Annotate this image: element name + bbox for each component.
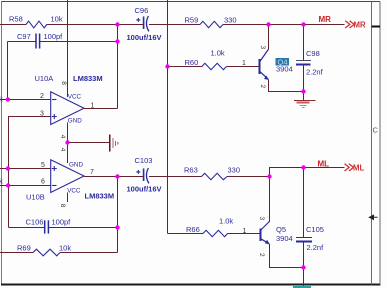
svg-text:GND: GND xyxy=(68,117,82,124)
svg-text:100uf/16V: 100uf/16V xyxy=(127,33,162,42)
svg-text:3904: 3904 xyxy=(276,65,293,74)
svg-text:1.0k: 1.0k xyxy=(219,216,233,225)
svg-text:330: 330 xyxy=(228,166,241,175)
wire C106 row xyxy=(9,227,118,229)
svg-text:100uf/16V: 100uf/16V xyxy=(127,185,162,194)
op-amp U10A xyxy=(51,92,84,125)
wire ground branch xyxy=(68,142,110,144)
ground (selected, bottom edge) xyxy=(293,286,311,288)
pin number 3 (Q4 collector, rotated) xyxy=(259,46,266,50)
svg-text:k: k xyxy=(0,177,3,186)
wire Q4 collector vertical xyxy=(268,25,270,50)
svg-text:330: 330 xyxy=(224,15,237,24)
capacitor C106 xyxy=(45,220,49,233)
wire long vertical x=167.5 xyxy=(167,0,169,234)
svg-text:2.2nf: 2.2nf xyxy=(306,68,324,77)
svg-text:R69: R69 xyxy=(17,243,31,252)
svg-text:4: 4 xyxy=(59,135,66,139)
svg-text:ML: ML xyxy=(353,164,364,173)
svg-text:10k: 10k xyxy=(59,243,71,252)
wire R60 row xyxy=(168,66,259,68)
svg-text:R63: R63 xyxy=(184,166,198,175)
svg-text:7: 7 xyxy=(90,169,94,176)
wire pin5 row xyxy=(0,168,51,170)
svg-text:3: 3 xyxy=(258,217,265,221)
svg-text:4: 4 xyxy=(59,148,66,152)
transistor Q5 xyxy=(261,222,270,245)
svg-text:MR: MR xyxy=(354,21,366,30)
svg-text:1.0k: 1.0k xyxy=(211,48,225,57)
resistor R60 xyxy=(202,63,227,69)
wire U10B pin8 stub xyxy=(67,193,69,203)
svg-text:3: 3 xyxy=(259,46,266,50)
wire pin6 row xyxy=(0,185,51,187)
net label MR xyxy=(319,15,332,24)
svg-text:R60: R60 xyxy=(185,58,199,67)
svg-text:3: 3 xyxy=(40,111,44,118)
svg-text:MR: MR xyxy=(319,15,332,24)
pin number 1 (Q4 base) xyxy=(242,60,246,67)
wire R66 row xyxy=(168,233,260,235)
wire left vertical A (C97 to pin2) xyxy=(7,42,9,100)
wire U10A feedback vertical x=117.5 xyxy=(117,25,119,109)
svg-text:VCC: VCC xyxy=(67,188,81,195)
svg-text:C96: C96 xyxy=(135,6,149,15)
wire U10B fb vertical x=117.5 (out to C106 to R69) xyxy=(117,177,119,253)
svg-text:2: 2 xyxy=(259,85,266,89)
ground (sideways) xyxy=(110,135,118,152)
svg-text:LM833M: LM833M xyxy=(85,192,115,201)
pin number 8 (rotated) xyxy=(60,81,67,85)
svg-text:VCC: VCC xyxy=(68,94,82,101)
pin number 3 (Q5 collector, rotated) xyxy=(258,217,265,221)
svg-text:C97: C97 xyxy=(17,32,31,41)
wire R63 leads xyxy=(227,176,269,178)
wire U10A output pin1 xyxy=(84,108,118,110)
capacitor C105 xyxy=(296,238,312,242)
svg-text:U10A: U10A xyxy=(35,74,54,83)
resistor R58 xyxy=(26,21,47,28)
pin number 2 (Q5 emitter, rotated) xyxy=(258,253,265,257)
wire C105 top stub xyxy=(303,168,305,238)
svg-text:100pf: 100pf xyxy=(52,217,72,226)
pin number 4 lower (rotated) xyxy=(59,148,66,152)
svg-text:GND: GND xyxy=(69,161,83,168)
net label ML xyxy=(318,159,330,168)
ground (Q4 emitter) xyxy=(294,92,316,108)
svg-text:U10B: U10B xyxy=(26,192,45,201)
svg-text:C103: C103 xyxy=(135,156,153,165)
Q4 designator (selected highlight) xyxy=(276,58,290,67)
zone arrow marker right border xyxy=(369,215,377,219)
pin number 2 xyxy=(40,93,44,100)
svg-text:k: k xyxy=(0,95,3,104)
svg-text:1: 1 xyxy=(242,60,246,67)
wire ground stub bottom xyxy=(303,268,305,287)
capacitor C98 xyxy=(296,61,311,65)
svg-text:R58: R58 xyxy=(9,15,23,24)
svg-text:Q5: Q5 xyxy=(276,225,286,234)
pin number 2 (Q4 emitter, rotated) xyxy=(259,85,266,89)
wire C98 top stub xyxy=(303,25,305,61)
wire pin2 row xyxy=(0,99,51,101)
svg-text:LM833M: LM833M xyxy=(73,74,103,83)
op-amp U10B xyxy=(51,160,84,193)
partial label k at pin6 xyxy=(0,177,3,186)
wire C98 bottom stub xyxy=(303,65,305,92)
pin number 5 xyxy=(41,162,45,169)
svg-text:2.2nf: 2.2nf xyxy=(307,243,325,252)
wire C97 row y=41.5 xyxy=(8,41,118,43)
capacitor C97 xyxy=(36,34,40,49)
svg-text:5: 5 xyxy=(41,162,45,169)
wire C105 bottom stub xyxy=(303,242,305,268)
pin number 4 upper (rotated) xyxy=(59,135,66,139)
pin number 6 xyxy=(41,179,45,186)
svg-text:C105: C105 xyxy=(306,225,324,234)
wire R69 row xyxy=(0,252,118,254)
pin number 1 (Q5 base) xyxy=(243,228,247,235)
svg-text:R66: R66 xyxy=(186,225,200,234)
zone letter C xyxy=(373,126,379,135)
partial label k at pin2 xyxy=(0,95,3,104)
svg-text:C106: C106 xyxy=(26,217,44,226)
wire Q4 emitter to ground node xyxy=(269,80,304,92)
svg-text:C98: C98 xyxy=(306,49,320,58)
resistor R69 xyxy=(33,249,60,256)
capacitor C96 (polarized) xyxy=(136,16,149,31)
wire Q5 emitter to ground node xyxy=(270,244,304,268)
wire top net y=24.5 xyxy=(0,24,345,26)
svg-text:8: 8 xyxy=(59,204,66,208)
pin number 3 xyxy=(40,111,44,118)
wire U10B output pin7 xyxy=(84,176,143,178)
svg-text:C: C xyxy=(373,126,379,135)
wire C103 to R63 xyxy=(149,176,201,178)
port >>MR xyxy=(345,21,354,28)
svg-text:3904: 3904 xyxy=(276,234,293,243)
wire pin3 row with corner xyxy=(9,117,51,126)
svg-text:100pf: 100pf xyxy=(44,32,64,41)
svg-text:10k: 10k xyxy=(51,15,63,24)
svg-text:6: 6 xyxy=(41,179,45,186)
svg-text:R59: R59 xyxy=(185,15,199,24)
svg-text:1: 1 xyxy=(243,228,247,235)
svg-text:ML: ML xyxy=(318,159,330,168)
svg-text:2: 2 xyxy=(258,253,265,257)
port >>ML xyxy=(345,164,354,171)
resistor R66 xyxy=(203,230,228,236)
pin number 8 (rotated, U10B) xyxy=(59,204,66,208)
wire VCC pin8 vertical from top xyxy=(67,0,69,97)
wire pin4 vertical (U10A GND to U10B GND) xyxy=(67,123,69,164)
pin number 7 xyxy=(90,169,94,176)
wire ML row y=167.5 xyxy=(270,168,345,177)
transistor Q4 xyxy=(260,49,269,80)
wire Q5 collector vertical xyxy=(269,168,271,222)
svg-text:2: 2 xyxy=(40,93,44,100)
svg-text:8: 8 xyxy=(60,81,67,85)
resistor R63 xyxy=(202,173,228,179)
resistor R59 xyxy=(200,21,223,27)
capacitor C103 (polarized) xyxy=(136,168,149,183)
wire left vertical B (pin3 to pin5/6/C106) xyxy=(8,117,10,228)
pin number 1 xyxy=(91,103,95,110)
